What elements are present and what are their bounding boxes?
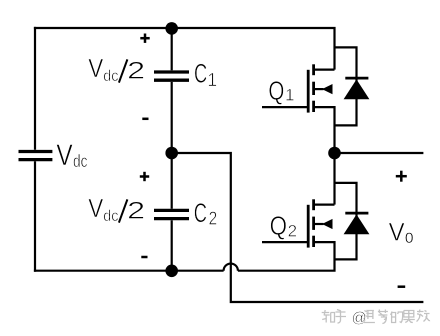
- svg-text:dc: dc: [103, 208, 118, 225]
- svg-text:2: 2: [288, 222, 297, 241]
- svg-text:C: C: [194, 198, 207, 228]
- svg-text:dc: dc: [103, 68, 118, 85]
- svg-text:Q: Q: [270, 211, 287, 241]
- svg-text:V: V: [389, 219, 405, 247]
- svg-text:V: V: [56, 139, 72, 172]
- svg-text:Q: Q: [268, 75, 284, 105]
- svg-text:2: 2: [127, 197, 145, 224]
- svg-text:dc: dc: [73, 151, 88, 171]
- svg-text:V: V: [88, 195, 103, 223]
- svg-text:1: 1: [207, 70, 217, 90]
- svg-text:@: @: [352, 310, 367, 327]
- svg-text:2: 2: [127, 57, 145, 84]
- svg-text:o: o: [405, 227, 414, 248]
- svg-text:2: 2: [209, 208, 218, 229]
- svg-text:1: 1: [285, 86, 294, 105]
- svg-text:C: C: [194, 58, 207, 88]
- svg-text:V: V: [88, 55, 103, 83]
